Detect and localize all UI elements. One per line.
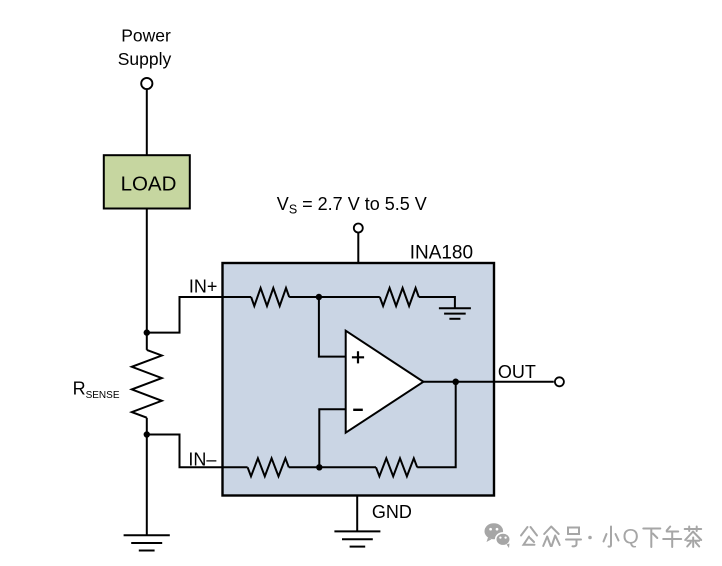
wire: box GND pin: [356, 495, 358, 531]
resistor: feedback: [376, 458, 417, 476]
terminal: OUT: [555, 377, 564, 386]
ground: GND pin: [334, 531, 380, 546]
wire: IN- from node B to box: [147, 435, 222, 468]
node C: [316, 294, 322, 300]
svg-text:LOAD: LOAD: [121, 173, 177, 196]
svg-text:IN–: IN–: [188, 450, 216, 470]
svg-text:IN+: IN+: [189, 276, 218, 296]
wire: Vs to box: [357, 233, 359, 263]
svg-text:INA180: INA180: [410, 242, 473, 263]
wire: resistor to node D: [289, 466, 320, 468]
svg-text:Q: Q: [623, 526, 639, 549]
wire: Rsense to ground: [146, 418, 148, 536]
wire: node C to op-amp +: [319, 297, 346, 357]
wire: gain resistor to internal ground: [419, 297, 455, 308]
svg-text:OUT: OUT: [498, 362, 536, 382]
watermark: WeChat icon: [485, 523, 511, 548]
node A (top of Rsense): [144, 329, 150, 335]
terminal: Power Supply: [141, 78, 152, 89]
resistor: input top: [251, 288, 289, 306]
node B (bottom of Rsense): [144, 431, 150, 437]
svg-text:Power: Power: [121, 25, 171, 45]
svg-text:Supply: Supply: [118, 49, 172, 69]
wire: feedback resistor up to output node: [417, 382, 456, 468]
wire: box input row top: [222, 296, 251, 298]
wire: box input row bottom: [222, 466, 248, 468]
resistor: gain top: [380, 288, 419, 306]
terminal: Vs: [354, 224, 363, 233]
wire: node C to gain resistor top: [319, 296, 380, 298]
watermark text 公众号·小Q下午茶: [521, 527, 701, 548]
wire: resistor to node C: [289, 296, 319, 298]
wire: node D to op-amp -: [319, 409, 345, 467]
svg-text:RSENSE: RSENSE: [73, 379, 120, 401]
wire: node A to Rsense: [146, 333, 148, 350]
ground: main: [124, 535, 170, 550]
wire: op-amp output to OUT terminal: [423, 381, 553, 383]
block: INA180: [223, 263, 495, 496]
svg-text:VS = 2.7 V to 5.5 V: VS = 2.7 V to 5.5 V: [277, 194, 427, 217]
ground: internal: [439, 308, 471, 319]
wire: node D to feedback resistor: [319, 466, 376, 468]
op-amp U1: [346, 331, 424, 433]
wire: power supply to LOAD: [146, 89, 148, 155]
wire: IN+ from node A to box: [147, 297, 222, 333]
svg-text:GND: GND: [372, 502, 412, 522]
op-amp + pin mark: [352, 351, 364, 363]
wire: LOAD to node A: [146, 209, 148, 333]
resistor RSENSE: [132, 350, 162, 418]
block: LOAD: [104, 155, 190, 208]
op-amp - pin mark: [353, 409, 363, 411]
resistor: input bottom: [248, 458, 289, 476]
node D: [316, 464, 322, 470]
node E (output): [452, 379, 459, 386]
